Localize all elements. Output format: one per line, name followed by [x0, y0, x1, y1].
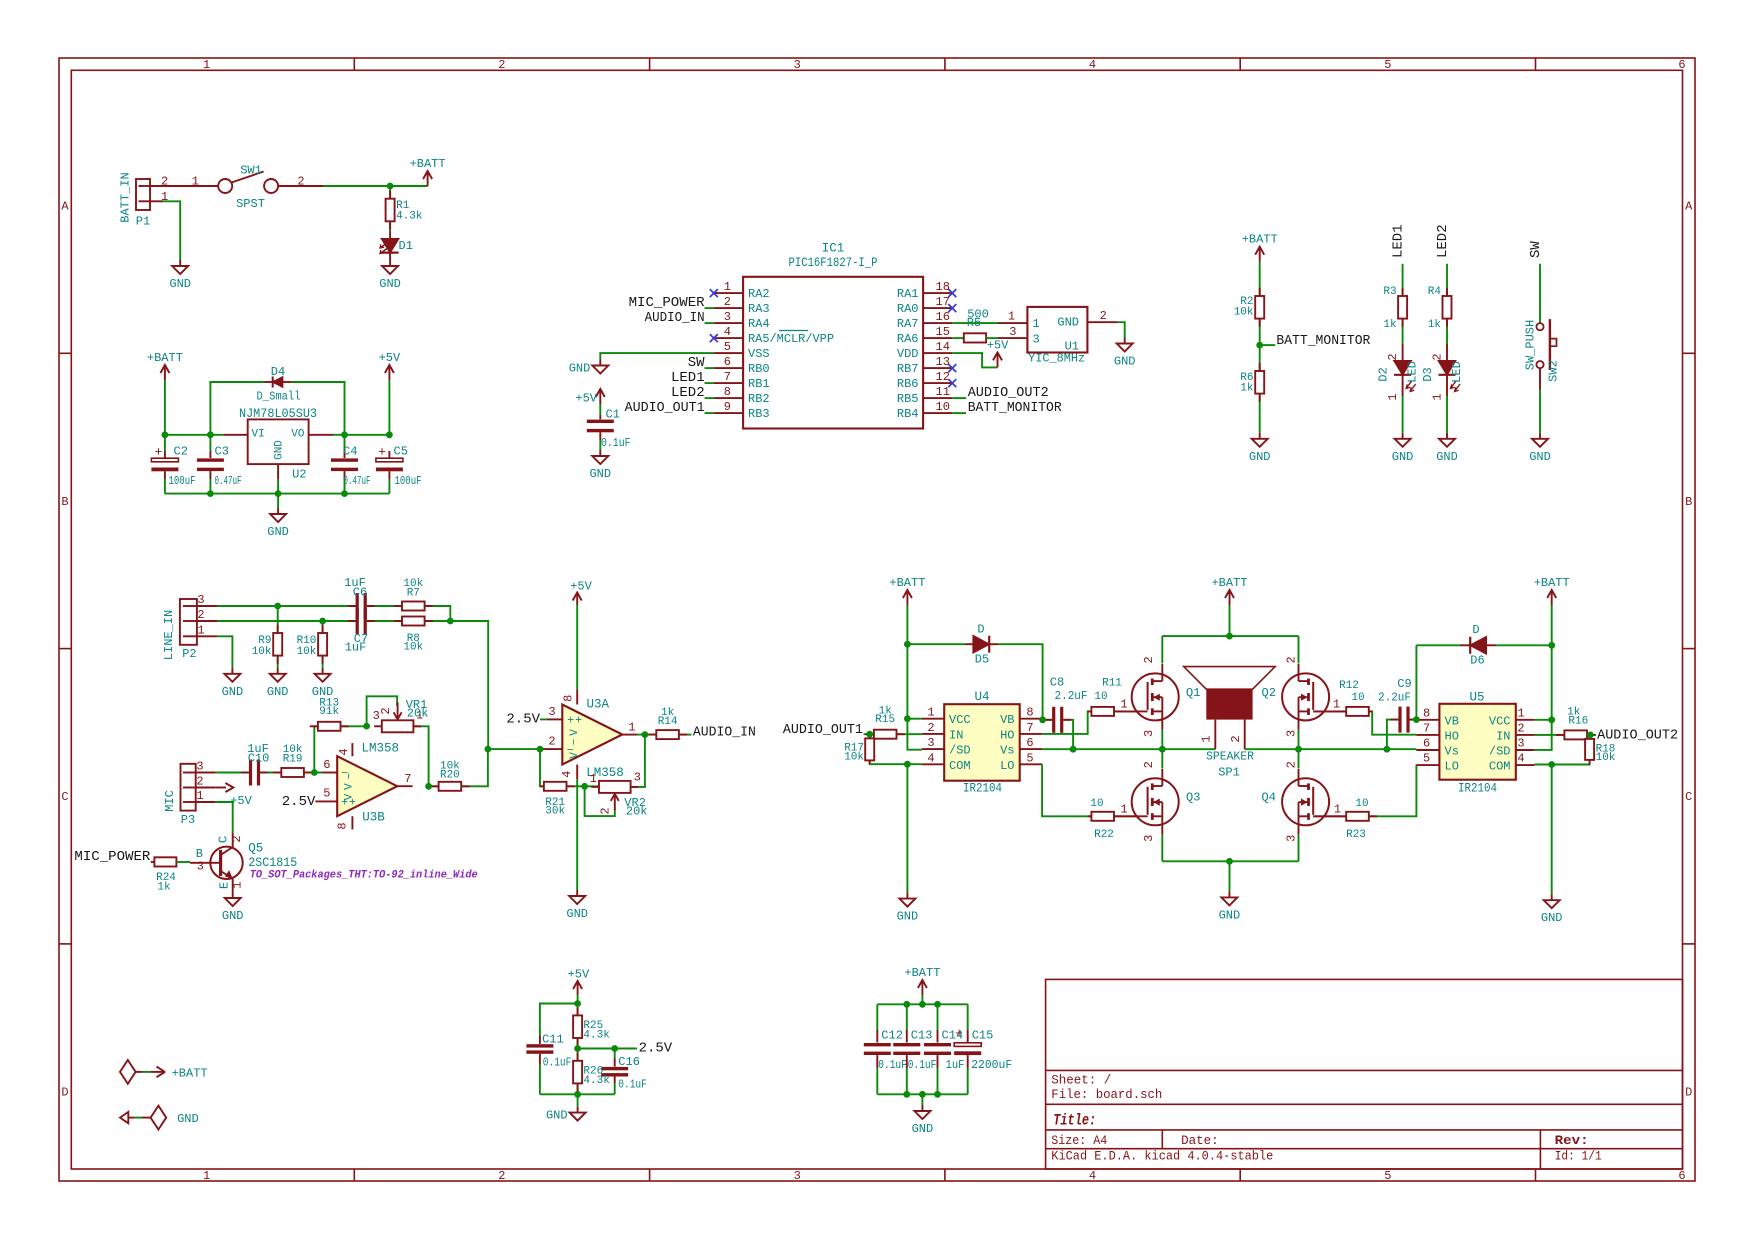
op-amp U3B [337, 756, 397, 816]
ground [222, 892, 244, 923]
pin [540, 785, 544, 787]
svg-text:+BATT: +BATT [1242, 233, 1278, 247]
wire [540, 1093, 615, 1095]
svg-text:1: 1 [1333, 698, 1340, 712]
svg-text:3: 3 [794, 1169, 801, 1183]
wire [488, 748, 540, 750]
resistor R1 [386, 199, 423, 223]
svg-text:GND: GND [1219, 908, 1241, 922]
wire [1496, 644, 1552, 646]
svg-text:RA7: RA7 [897, 317, 919, 331]
power +5V [987, 338, 1009, 367]
resistor R9 [252, 633, 283, 658]
svg-text:HO: HO [1000, 728, 1014, 742]
wire [614, 1083, 616, 1094]
junction [903, 1091, 910, 1098]
junction [574, 1091, 581, 1098]
ground [312, 668, 334, 699]
wire [921, 1094, 923, 1105]
svg-text:8: 8 [724, 385, 731, 399]
svg-text:1: 1 [1334, 803, 1341, 817]
pin [1088, 815, 1092, 817]
svg-text:5: 5 [1423, 752, 1430, 766]
capacitor C15 [954, 1004, 1012, 1094]
svg-text:3: 3 [634, 770, 641, 784]
svg-text:10: 10 [1090, 798, 1103, 810]
global label 2.5V [506, 711, 540, 727]
wire [277, 479, 279, 508]
svg-text:R7: R7 [407, 588, 420, 600]
svg-text:2: 2 [230, 835, 244, 842]
junction [319, 618, 326, 625]
pin [367, 620, 375, 622]
svg-text:AUDIO_IN: AUDIO_IN [645, 310, 705, 326]
speaker SP1 [1184, 667, 1275, 780]
svg-text:4.3k: 4.3k [583, 1030, 610, 1042]
wire [210, 382, 264, 435]
junction [574, 1045, 581, 1052]
ground [222, 668, 244, 699]
wire [344, 479, 346, 494]
svg-text:1: 1 [1008, 310, 1015, 324]
svg-text:D3: D3 [1421, 367, 1435, 381]
pin [389, 221, 391, 229]
wire [388, 380, 390, 435]
wire [164, 380, 166, 435]
capacitor C13 [893, 1004, 936, 1094]
svg-text:2: 2 [498, 1169, 505, 1183]
svg-text:1k: 1k [1240, 383, 1254, 395]
pin [304, 772, 312, 774]
wire [1298, 730, 1300, 749]
svg-text:GND: GND [1541, 911, 1563, 925]
svg-text:GND: GND [222, 685, 244, 699]
pin [394, 605, 402, 607]
wire [906, 605, 908, 719]
transistor Q2 [1262, 656, 1339, 737]
svg-text:Sheet: /: Sheet: / [1051, 1074, 1111, 1088]
svg-text:4: 4 [560, 771, 574, 778]
svg-text:R13: R13 [319, 698, 339, 710]
wire [388, 479, 390, 494]
svg-text:11: 11 [936, 385, 950, 399]
wire [367, 605, 403, 607]
svg-text:7: 7 [1026, 721, 1033, 735]
junction [275, 490, 282, 497]
pin [1338, 710, 1346, 712]
ground [1529, 433, 1551, 464]
junction [574, 1000, 581, 1007]
svg-text:4: 4 [1089, 1169, 1096, 1183]
connector P1 [119, 172, 219, 228]
wire [705, 367, 714, 369]
wire [1410, 719, 1417, 721]
svg-text:3: 3 [1142, 730, 1156, 737]
wire [952, 397, 966, 399]
svg-text:10: 10 [1094, 691, 1107, 703]
svg-text:2: 2 [1100, 309, 1107, 323]
svg-text:6: 6 [724, 355, 731, 369]
svg-text:D2: D2 [1377, 367, 1391, 381]
junction [341, 490, 348, 497]
svg-text:C: C [61, 790, 68, 804]
svg-text:C9: C9 [1397, 677, 1411, 691]
svg-text:File: board.sch: File: board.sch [1051, 1088, 1162, 1102]
svg-text:13: 13 [936, 355, 950, 369]
capacitor C8 labels [1050, 676, 1088, 704]
wire [705, 322, 714, 324]
svg-text:U3B: U3B [362, 811, 385, 825]
svg-text:15: 15 [936, 325, 950, 339]
wire [576, 780, 578, 890]
svg-text:0.1uF: 0.1uF [618, 1078, 647, 1092]
svg-text:Q4: Q4 [1262, 791, 1276, 805]
svg-text:6: 6 [1423, 737, 1430, 751]
power legend GND [120, 1106, 199, 1130]
resistor R8 [402, 617, 425, 654]
svg-text:IC1: IC1 [822, 242, 845, 256]
capacitor C8 [1052, 707, 1063, 733]
wire [1402, 396, 1404, 433]
wire [1415, 645, 1417, 719]
svg-text:R21: R21 [545, 797, 565, 809]
wire [260, 772, 282, 774]
LED D1 [380, 232, 413, 261]
svg-text:3: 3 [1284, 835, 1298, 842]
wire [164, 479, 166, 494]
svg-text:R15: R15 [875, 714, 895, 726]
svg-text:0.1uF: 0.1uF [878, 1058, 907, 1072]
wire [1259, 394, 1261, 433]
svg-text:+: + [378, 445, 386, 460]
wire [218, 620, 357, 622]
svg-text:3: 3 [373, 709, 380, 723]
svg-text:AUDIO_OUT2: AUDIO_OUT2 [968, 385, 1049, 401]
svg-text:R23: R23 [1346, 829, 1366, 841]
junction [1295, 746, 1302, 753]
wire [1162, 860, 1298, 862]
svg-text:10: 10 [936, 400, 950, 414]
wire [1260, 344, 1275, 346]
pin [577, 1038, 579, 1046]
pin [869, 760, 871, 764]
ground [1436, 433, 1458, 464]
svg-text:C11: C11 [542, 1033, 564, 1047]
svg-text:+5V: +5V [568, 968, 590, 982]
svg-text:LO: LO [1445, 760, 1459, 774]
global label BATT_MONITOR [968, 400, 1063, 416]
svg-text:SPST: SPST [236, 197, 265, 211]
svg-text:1: 1 [203, 58, 210, 72]
junction [1548, 716, 1555, 723]
svg-text:LED1: LED1 [1391, 224, 1407, 258]
svg-text:10k: 10k [1596, 752, 1616, 764]
svg-text:2: 2 [1229, 735, 1243, 742]
junction [447, 618, 454, 625]
global label LED1 [671, 370, 705, 386]
svg-text:+BATT: +BATT [410, 157, 446, 171]
svg-text:2SC1815: 2SC1815 [248, 856, 297, 870]
svg-text:1: 1 [196, 789, 203, 803]
junction [1548, 642, 1555, 649]
svg-text:PIC16F1827-I_P: PIC16F1827-I_P [789, 256, 878, 270]
junction [903, 1001, 910, 1008]
IC IC1 PIC16F1827-I_P [714, 242, 953, 429]
diode D6 [1470, 637, 1486, 654]
svg-text:GND: GND [589, 467, 611, 481]
svg-text:C13: C13 [911, 1029, 933, 1043]
pin [425, 620, 433, 622]
svg-text:R16: R16 [1568, 716, 1588, 728]
svg-text:GND: GND [566, 907, 588, 921]
wire [163, 201, 180, 260]
svg-text:7: 7 [1423, 721, 1430, 735]
wire [209, 435, 211, 451]
svg-text:R3: R3 [1383, 286, 1396, 298]
pin [1259, 319, 1261, 327]
pin [679, 734, 687, 736]
power +BATT [889, 576, 925, 605]
pin [430, 785, 438, 787]
svg-text:U5: U5 [1469, 691, 1484, 705]
svg-text:GND: GND [1057, 316, 1079, 330]
svg-text:Rev:: Rev: [1555, 1134, 1589, 1148]
wire [413, 726, 428, 786]
svg-text:1: 1 [628, 720, 635, 734]
junction [1548, 761, 1555, 768]
pin [577, 1007, 579, 1015]
wire [1161, 730, 1163, 749]
svg-text:U3A: U3A [587, 698, 610, 712]
svg-text:RB5: RB5 [897, 392, 919, 406]
svg-text:2: 2 [161, 175, 168, 189]
wire [986, 337, 997, 339]
svg-text:1: 1 [231, 881, 245, 888]
no-connect [710, 289, 718, 297]
wire [1534, 720, 1551, 750]
svg-text:1: 1 [590, 772, 597, 786]
wire [425, 606, 451, 621]
svg-text:GND: GND [267, 525, 289, 539]
svg-text:0.1uF: 0.1uF [601, 436, 631, 450]
global label 2.5V [282, 794, 316, 810]
svg-text:VI: VI [252, 429, 265, 441]
capacitor C12 [864, 1004, 907, 1094]
svg-text:C8: C8 [1050, 676, 1064, 690]
svg-text:1k: 1k [1383, 319, 1397, 331]
svg-text:RB2: RB2 [748, 392, 770, 406]
resistor R12 [1339, 680, 1369, 716]
svg-text:/SD: /SD [1489, 745, 1511, 759]
svg-text:GND: GND [177, 1112, 199, 1126]
resistor R14 [656, 707, 679, 739]
svg-text:RA4: RA4 [748, 317, 770, 331]
junction [1256, 342, 1263, 349]
svg-text:10k: 10k [844, 752, 864, 764]
svg-text:R14: R14 [658, 716, 678, 728]
ground [912, 1105, 934, 1136]
power +BATT [1211, 576, 1247, 605]
svg-text:GND: GND [274, 440, 286, 460]
svg-text:+BATT: +BATT [904, 966, 940, 980]
wire [631, 735, 645, 787]
svg-text:100uF: 100uF [395, 474, 422, 488]
power +BATT [1534, 576, 1570, 605]
svg-text:+5V: +5V [379, 351, 401, 365]
svg-text:4.3k: 4.3k [583, 1075, 610, 1087]
wire [216, 772, 250, 774]
svg-text:RA6: RA6 [897, 332, 919, 346]
svg-text:14: 14 [936, 340, 950, 354]
svg-text:8: 8 [1423, 706, 1430, 720]
svg-text:C10: C10 [248, 752, 270, 766]
wire [1369, 711, 1417, 734]
svg-text:LED1: LED1 [671, 370, 705, 386]
wire [585, 786, 615, 816]
global label AUDIO_OUT1 [625, 400, 705, 416]
svg-text:+BATT: +BATT [147, 351, 183, 365]
wire [578, 1048, 637, 1050]
wire [952, 353, 997, 367]
pin [1338, 815, 1346, 817]
power +BATT [410, 157, 446, 186]
junction [904, 641, 911, 648]
wire [322, 656, 324, 668]
wire [461, 749, 488, 786]
svg-text:7: 7 [724, 370, 731, 384]
svg-text:P2: P2 [182, 647, 196, 661]
junction [485, 746, 492, 753]
svg-text:P1: P1 [136, 215, 150, 229]
svg-text:V: V [344, 793, 356, 800]
capacitor C14 [924, 1004, 965, 1094]
svg-text:2: 2 [498, 58, 505, 72]
wire [907, 643, 965, 645]
svg-text:R5: R5 [967, 316, 981, 330]
svg-text:Vs: Vs [1445, 745, 1459, 759]
svg-text:RA0: RA0 [897, 302, 919, 316]
svg-text:D6: D6 [1470, 654, 1484, 668]
wire [1387, 720, 1399, 750]
svg-text:2.5V: 2.5V [282, 794, 316, 810]
svg-text:10k: 10k [297, 646, 317, 658]
wire [921, 995, 923, 1004]
wire [367, 696, 398, 726]
svg-text:2: 2 [1284, 656, 1298, 663]
wire [1539, 264, 1541, 323]
wire [1298, 636, 1300, 663]
capacitor C7 [356, 608, 367, 634]
wire [952, 412, 966, 414]
wire [1534, 719, 1551, 721]
junction [425, 783, 432, 790]
wire [425, 621, 489, 749]
pin [1063, 719, 1071, 721]
svg-text:+BATT: +BATT [1534, 576, 1570, 590]
resistor R10 [297, 633, 328, 658]
svg-text:B: B [1685, 495, 1692, 509]
wire [322, 621, 324, 633]
potentiometer VR2 labels [590, 770, 648, 818]
R23 pin number [1334, 803, 1341, 817]
R12 pin number [1333, 698, 1340, 712]
ground [589, 450, 611, 481]
svg-text:NJM78L05SU3: NJM78L05SU3 [239, 407, 317, 421]
capacitor C4 [331, 445, 371, 489]
svg-text:R8: R8 [407, 633, 420, 645]
junction [387, 183, 394, 190]
svg-text:RB7: RB7 [897, 362, 919, 376]
svg-text:U2: U2 [292, 468, 306, 482]
svg-text:1: 1 [1120, 803, 1127, 817]
svg-text:2: 2 [927, 721, 934, 735]
wire [165, 434, 224, 436]
svg-text:C16: C16 [618, 1055, 640, 1069]
pin [1391, 719, 1399, 721]
svg-text:3: 3 [1033, 333, 1040, 347]
svg-text:U4: U4 [974, 690, 989, 704]
svg-text:D: D [1685, 1086, 1692, 1100]
svg-text:LED: LED [1406, 361, 1420, 383]
svg-text:GND: GND [1392, 450, 1414, 464]
global label MIC_POWER [74, 849, 151, 865]
junction [1039, 716, 1046, 723]
IC U4 IR2104 [922, 690, 1042, 796]
no-connect [948, 304, 956, 312]
wire [323, 185, 428, 187]
svg-text:3: 3 [197, 860, 204, 874]
svg-text:HO: HO [1445, 729, 1459, 743]
junction [1159, 746, 1166, 753]
svg-text:2: 2 [379, 707, 393, 714]
svg-text:8: 8 [336, 822, 350, 829]
junction [904, 761, 911, 768]
switch SW2 SW_PUSH [1524, 319, 1561, 389]
wire [1259, 319, 1261, 371]
svg-text:D: D [977, 623, 984, 637]
capacitor C1 [587, 404, 631, 450]
ground [569, 360, 609, 376]
svg-text:2.2uF: 2.2uF [1378, 691, 1411, 705]
svg-text:SP1: SP1 [1218, 766, 1240, 780]
pin [461, 785, 469, 787]
svg-text:8: 8 [1026, 706, 1033, 720]
svg-text:GND: GND [546, 1109, 568, 1123]
svg-text:10k: 10k [252, 646, 272, 658]
wire [998, 644, 1043, 720]
svg-text:RB3: RB3 [748, 407, 770, 421]
power legend +BATT [120, 1060, 208, 1084]
svg-text:RA3: RA3 [748, 302, 770, 316]
wire [1245, 748, 1417, 750]
transistor Q3 [1122, 761, 1200, 842]
svg-text:GND: GND [1436, 450, 1458, 464]
wire [1402, 264, 1404, 297]
power +5V [568, 968, 590, 996]
pin [1589, 735, 1591, 739]
resistor R17 [844, 738, 874, 763]
svg-text:0.47uF: 0.47uF [215, 474, 242, 488]
junction [1226, 858, 1233, 865]
svg-text:5: 5 [1384, 1169, 1391, 1183]
svg-text:3: 3 [1284, 730, 1298, 737]
svg-text:AUDIO_IN: AUDIO_IN [693, 725, 756, 741]
junction [162, 431, 169, 438]
svg-text:3: 3 [1517, 737, 1524, 751]
svg-text:2.5V: 2.5V [506, 711, 540, 727]
svg-text:C6: C6 [353, 586, 367, 600]
svg-text:+: + [567, 715, 574, 728]
